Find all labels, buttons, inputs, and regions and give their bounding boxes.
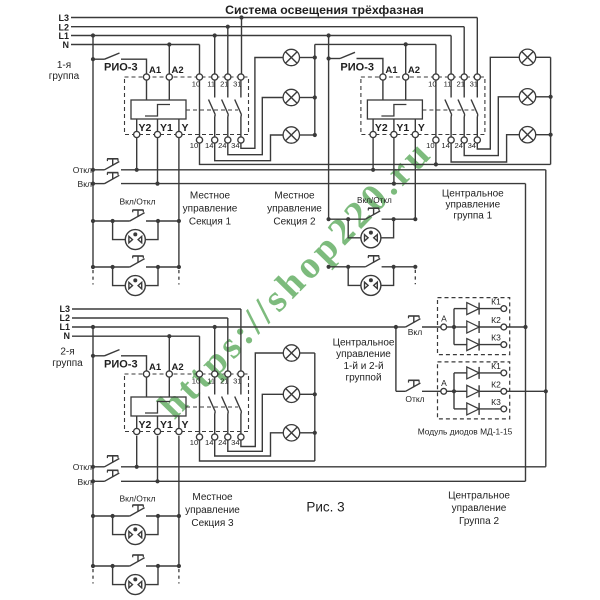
svg-text:Y: Y: [418, 122, 425, 134]
svg-text:34: 34: [231, 438, 239, 447]
svg-text:Y2: Y2: [375, 122, 388, 134]
svg-text:управление: управление: [183, 204, 238, 215]
svg-text:2-я: 2-я: [60, 347, 74, 358]
svg-text:1-й и 2-й: 1-й и 2-й: [343, 361, 383, 372]
svg-text:31: 31: [470, 80, 478, 89]
svg-text:Y1: Y1: [396, 122, 409, 134]
svg-text:Y: Y: [182, 419, 189, 431]
svg-text:24: 24: [218, 141, 226, 150]
svg-text:группа 1: группа 1: [453, 210, 492, 221]
svg-text:РИО-3: РИО-3: [340, 62, 374, 74]
svg-text:31: 31: [233, 80, 241, 89]
svg-text:группой: группой: [345, 373, 381, 384]
svg-text:Рис. 3: Рис. 3: [306, 500, 344, 515]
svg-text:Группа 2: Группа 2: [459, 516, 499, 527]
svg-text:Центральное: Центральное: [448, 491, 510, 502]
svg-text:A2: A2: [172, 65, 184, 76]
svg-text:Центральное: Центральное: [442, 188, 504, 199]
svg-text:управление: управление: [267, 204, 322, 215]
svg-text:К2: К2: [491, 379, 501, 389]
svg-text:14: 14: [205, 438, 213, 447]
svg-text:Откл: Откл: [405, 394, 424, 404]
svg-text:N: N: [64, 331, 71, 341]
svg-text:Откл: Откл: [73, 165, 92, 175]
svg-text:К1: К1: [491, 361, 501, 371]
svg-text:К3: К3: [491, 333, 501, 343]
svg-text:N: N: [63, 40, 70, 50]
svg-text:управление: управление: [185, 505, 240, 516]
svg-text:группа: группа: [49, 71, 80, 82]
svg-text:1-я: 1-я: [57, 60, 71, 71]
svg-text:К2: К2: [491, 315, 501, 325]
svg-text:Y2: Y2: [139, 419, 152, 431]
svg-text:21: 21: [220, 377, 228, 386]
svg-text:11: 11: [207, 377, 215, 386]
svg-text:Местное: Местное: [192, 492, 233, 503]
svg-text:10: 10: [192, 377, 200, 386]
svg-text:Вкл/Откл: Вкл/Откл: [119, 197, 155, 207]
svg-text:24: 24: [454, 141, 462, 150]
svg-text:Y1: Y1: [160, 419, 173, 431]
svg-text:К3: К3: [491, 397, 501, 407]
svg-text:10: 10: [426, 141, 434, 150]
svg-text:управление: управление: [452, 503, 507, 514]
svg-text:Секция 1: Секция 1: [189, 217, 232, 228]
svg-text:10: 10: [428, 80, 436, 89]
svg-text:К1: К1: [491, 297, 501, 307]
svg-text:11: 11: [444, 80, 452, 89]
svg-text:Вкл: Вкл: [78, 179, 92, 189]
svg-text:A1: A1: [385, 65, 398, 76]
svg-text:A1: A1: [149, 65, 162, 76]
svg-text:Вкл/Откл: Вкл/Откл: [357, 196, 392, 205]
svg-text:управление: управление: [336, 349, 391, 360]
svg-text:Местное: Местное: [274, 191, 315, 202]
svg-text:Вкл/Откл: Вкл/Откл: [119, 494, 155, 504]
svg-text:А: А: [441, 378, 447, 388]
svg-text:Секция 3: Секция 3: [191, 518, 234, 529]
svg-text:Вкл: Вкл: [408, 327, 422, 337]
svg-text:Вкл: Вкл: [78, 477, 92, 487]
svg-text:34: 34: [468, 141, 476, 150]
svg-text:Y1: Y1: [160, 122, 173, 134]
svg-text:Откл: Откл: [73, 462, 92, 472]
svg-text:Y: Y: [182, 122, 189, 134]
svg-text:РИО-3: РИО-3: [104, 62, 138, 74]
svg-text:Y2: Y2: [139, 122, 152, 134]
svg-text:10: 10: [190, 141, 198, 150]
svg-text:34: 34: [231, 141, 239, 150]
svg-text:14: 14: [441, 141, 449, 150]
svg-text:10: 10: [192, 80, 200, 89]
svg-text:группа: группа: [52, 358, 83, 369]
svg-text:Секция 2: Секция 2: [273, 217, 316, 228]
svg-text:Модуль диодов МД-1-15: Модуль диодов МД-1-15: [418, 427, 513, 437]
svg-text:РИО-3: РИО-3: [104, 359, 138, 371]
svg-text:11: 11: [207, 80, 215, 89]
svg-text:31: 31: [233, 377, 241, 386]
svg-text:10: 10: [190, 438, 198, 447]
svg-text:21: 21: [220, 80, 228, 89]
svg-text:Система освещения трёхфазная: Система освещения трёхфазная: [225, 3, 424, 17]
svg-text:А: А: [441, 314, 447, 324]
svg-text:24: 24: [218, 438, 226, 447]
svg-text:14: 14: [205, 141, 213, 150]
svg-text:A1: A1: [149, 362, 162, 373]
svg-text:управление: управление: [445, 199, 500, 210]
svg-text:Центральное: Центральное: [333, 338, 395, 349]
svg-text:Местное: Местное: [190, 191, 231, 202]
svg-text:A2: A2: [408, 65, 420, 76]
svg-text:21: 21: [456, 80, 464, 89]
svg-text:A2: A2: [172, 362, 184, 373]
